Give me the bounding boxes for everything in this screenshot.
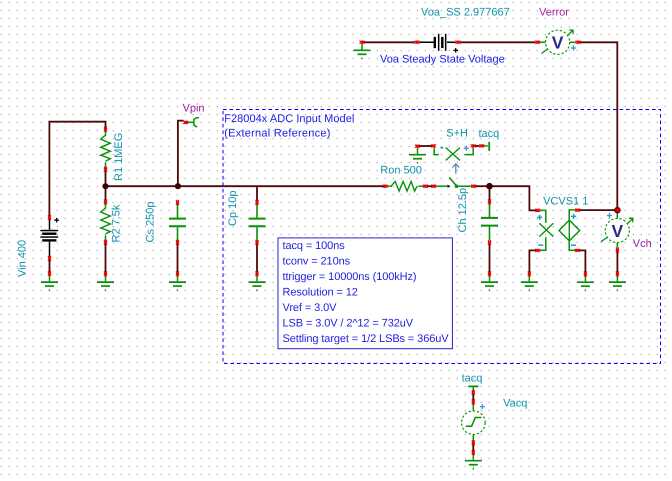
svg-text:ttrigger = 10000ns (100kHz): ttrigger = 10000ns (100kHz) [283,271,417,283]
svg-text:Settling target = 1/2 LSBs = 3: Settling target = 1/2 LSBs = 366uV [283,333,450,345]
svg-text:Resolution = 12: Resolution = 12 [283,286,358,298]
svg-text:Voa_SS 2.977667: Voa_SS 2.977667 [421,6,510,18]
svg-text:R2 7.5k: R2 7.5k [111,204,123,242]
svg-text:F28004x ADC Input Model: F28004x ADC Input Model [224,113,354,125]
svg-text:tacq: tacq [462,372,483,384]
svg-text:LSB = 3.0V / 2^12 = 732uV: LSB = 3.0V / 2^12 = 732uV [283,317,414,329]
svg-text:S+H: S+H [446,128,468,140]
svg-text:Vin 400: Vin 400 [17,240,29,277]
svg-text:tacq: tacq [479,128,500,140]
svg-text:VCVS1 1: VCVS1 1 [543,195,588,207]
svg-text:Ch 12.5p: Ch 12.5p [457,188,469,233]
svg-text:tacq = 100ns: tacq = 100ns [283,240,346,252]
svg-text:Vpin: Vpin [183,103,205,115]
svg-text:Verror: Verror [539,7,569,19]
svg-text:tconv = 210ns: tconv = 210ns [283,255,351,267]
svg-text:R1 1MEG: R1 1MEG [113,133,125,181]
svg-text:Cs 250p: Cs 250p [145,202,157,243]
svg-text:Cp 10p: Cp 10p [227,191,239,226]
svg-text:Vch: Vch [633,238,652,250]
svg-text:Ron 500: Ron 500 [380,164,422,176]
svg-text:Voa Steady State Voltage: Voa Steady State Voltage [380,53,505,65]
svg-text:Vref = 3.0V: Vref = 3.0V [283,302,338,314]
svg-text:Vacq: Vacq [503,397,527,409]
svg-text:(External Reference): (External Reference) [224,127,331,139]
